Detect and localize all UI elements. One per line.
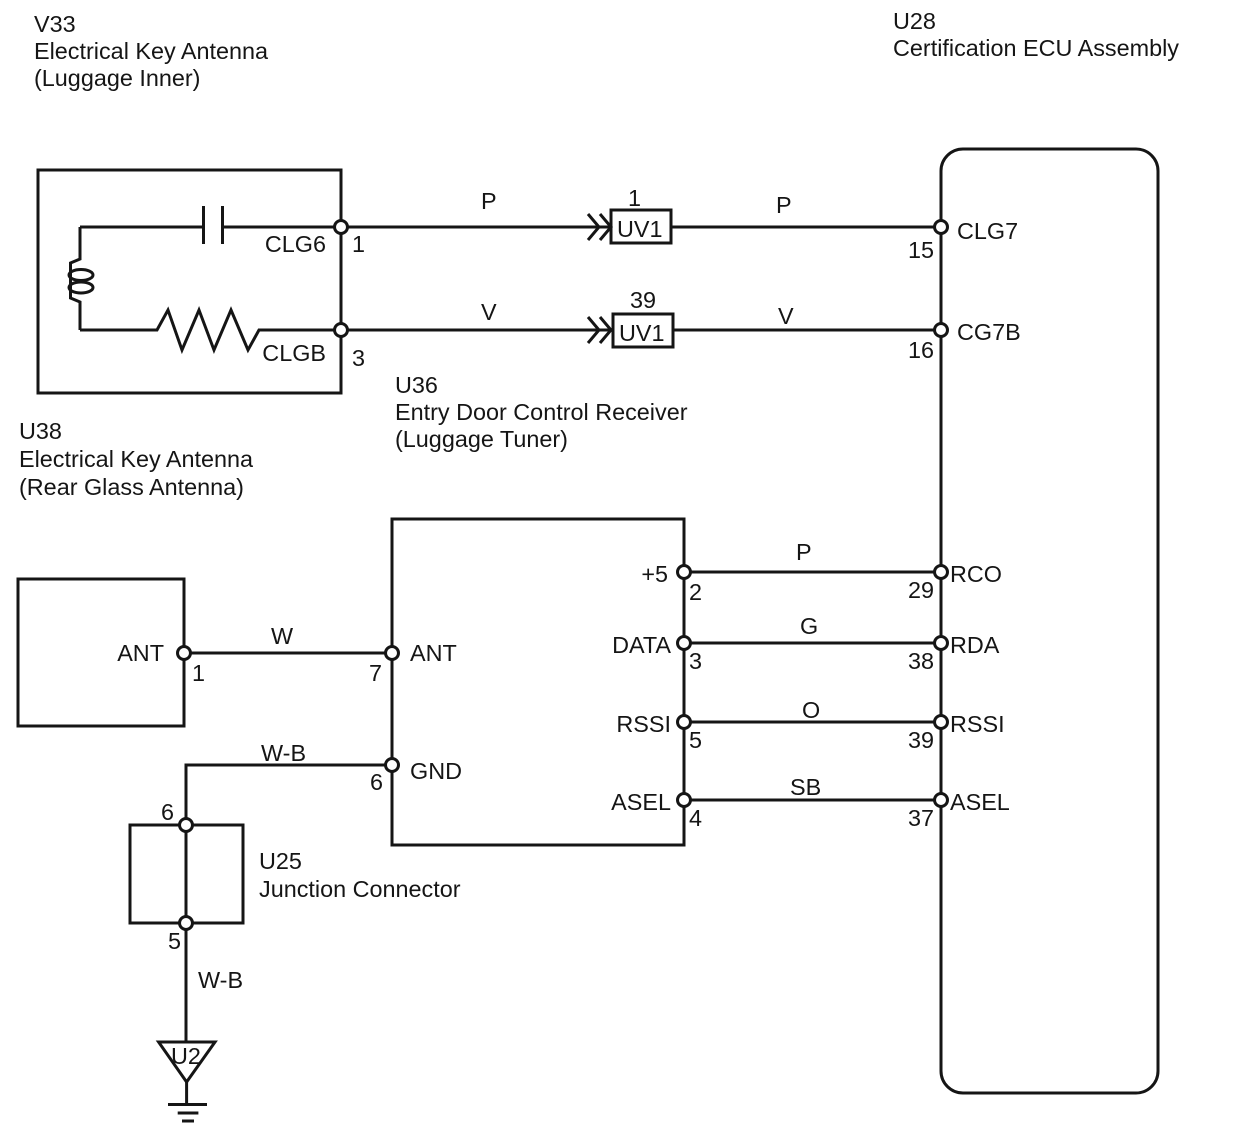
node RSSI pin 5 of U36: [616, 711, 702, 753]
connector UV1 pin 1 box: [611, 210, 671, 243]
svg-text:6: 6: [370, 769, 383, 795]
node +5 pin 2 of U36: [641, 561, 702, 605]
svg-text:2: 2: [689, 579, 702, 605]
svg-text:W-B: W-B: [198, 967, 243, 993]
svg-text:W: W: [271, 623, 293, 649]
svg-text:U28: U28: [893, 8, 936, 34]
svg-text:RDA: RDA: [950, 632, 1000, 658]
svg-text:Electrical Key Antenna: Electrical Key Antenna: [19, 446, 254, 472]
node CLG6 pin 1 of V33: [265, 221, 365, 258]
svg-text:SB: SB: [790, 774, 821, 800]
svg-text:Certification ECU Assembly: Certification ECU Assembly: [893, 35, 1179, 61]
svg-text:3: 3: [689, 648, 702, 674]
svg-text:1: 1: [628, 185, 641, 211]
svg-text:4: 4: [689, 805, 702, 831]
svg-text:ANT: ANT: [117, 640, 164, 666]
node CG7B pin 16 of U28: [908, 319, 1021, 363]
wire through junction connector: [185, 825, 188, 923]
svg-text:CLG6: CLG6: [265, 231, 326, 257]
resistor (V33 internal): [80, 310, 341, 350]
node RSSI pin 39 of U28: [908, 711, 1005, 753]
ground symbol bars: [168, 1105, 207, 1122]
svg-text:UV1: UV1: [619, 320, 665, 346]
label U38 title: [19, 418, 254, 500]
svg-text:ASEL: ASEL: [611, 789, 671, 815]
svg-text:15: 15: [908, 237, 934, 263]
ground triangle U2: [159, 1042, 215, 1082]
svg-text:DATA: DATA: [612, 632, 671, 658]
svg-text:CLG7: CLG7: [957, 218, 1018, 244]
connector UV1 pin 39 box: [613, 314, 673, 347]
svg-text:RSSI: RSSI: [616, 711, 671, 737]
svg-text:RCO: RCO: [950, 561, 1002, 587]
node ANT pin 7 of U36: [369, 640, 457, 686]
node DATA pin 3 of U36: [612, 632, 702, 674]
svg-text:U36: U36: [395, 372, 438, 398]
component U25 junction connector box: [130, 825, 243, 923]
wire SB from U36 ASEL to ECU ASEL: [684, 799, 941, 802]
component V33 box: [38, 170, 341, 393]
label U36 title: [395, 372, 688, 452]
capacitor (V33 internal): [204, 206, 223, 244]
component U38 box: [18, 579, 184, 726]
svg-text:39: 39: [908, 727, 934, 753]
svg-text:39: 39: [630, 287, 656, 313]
node CLG7 pin 15 of U28: [908, 218, 1018, 263]
svg-text:V: V: [481, 299, 497, 325]
svg-text:ANT: ANT: [410, 640, 457, 666]
svg-text:5: 5: [689, 727, 702, 753]
svg-text:CLGB: CLGB: [262, 340, 326, 366]
node GND pin 6 of U36: [370, 758, 462, 795]
wire P from U36 +5 to ECU RCO: [684, 571, 941, 574]
svg-text:Junction Connector: Junction Connector: [259, 876, 461, 902]
component U28 ECU rounded box: [941, 149, 1158, 1093]
svg-text:37: 37: [908, 805, 934, 831]
svg-text:U38: U38: [19, 418, 62, 444]
wire apex to ground bars: [185, 1082, 188, 1104]
svg-text:Electrical Key Antenna: Electrical Key Antenna: [34, 38, 269, 64]
svg-text:GND: GND: [410, 758, 462, 784]
svg-text:38: 38: [908, 648, 934, 674]
svg-text:UV1: UV1: [617, 216, 663, 242]
svg-text:5: 5: [168, 928, 181, 954]
svg-text:CG7B: CG7B: [957, 319, 1021, 345]
connector pass-through chevrons UV1 pin 1: [588, 214, 611, 240]
svg-text:O: O: [802, 697, 820, 723]
node ASEL pin 4 of U36: [611, 789, 702, 831]
svg-text:W-B: W-B: [261, 740, 306, 766]
svg-text:P: P: [776, 192, 792, 218]
svg-text:V33: V33: [34, 11, 76, 37]
node ASEL pin 37 of U28: [908, 789, 1010, 831]
svg-text:V: V: [778, 303, 794, 329]
svg-text:1: 1: [192, 660, 205, 686]
node RCO pin 29 of U28: [908, 561, 1002, 603]
svg-text:1: 1: [352, 231, 365, 257]
node pin 6 of U25: [161, 799, 193, 832]
svg-text:(Rear Glass Antenna): (Rear Glass Antenna): [19, 474, 244, 500]
svg-text:16: 16: [908, 337, 934, 363]
wire W-B from junction pin 5 to ground: [185, 923, 188, 1042]
svg-text:29: 29: [908, 577, 934, 603]
svg-text:U25: U25: [259, 848, 302, 874]
node ANT pin 1 of U38: [117, 640, 205, 686]
svg-text:+5: +5: [641, 561, 668, 587]
label U28 title: [893, 8, 1179, 61]
svg-text:ASEL: ASEL: [950, 789, 1010, 815]
wire G from U36 DATA to ECU RDA: [684, 642, 941, 645]
svg-text:U2: U2: [171, 1043, 201, 1069]
svg-text:RSSI: RSSI: [950, 711, 1005, 737]
wire V from CLGB to connector UV1: [341, 329, 613, 332]
svg-text:(Luggage Tuner): (Luggage Tuner): [395, 426, 568, 452]
node RDA pin 38 of U28: [908, 632, 1000, 674]
wire W from U38 ANT to U36 ANT: [184, 652, 392, 655]
svg-text:(Luggage Inner): (Luggage Inner): [34, 65, 200, 91]
component U36 box: [392, 519, 684, 845]
node CLGB pin 3 of V33: [262, 324, 365, 372]
svg-text:P: P: [481, 188, 497, 214]
wire V from UV1 to CG7B: [673, 329, 941, 332]
svg-text:Entry Door Control Receiver: Entry Door Control Receiver: [395, 399, 688, 425]
connector pass-through chevrons UV1 pin 39: [588, 317, 611, 343]
svg-text:3: 3: [352, 345, 365, 371]
svg-text:P: P: [796, 539, 812, 565]
svg-text:6: 6: [161, 799, 174, 825]
label U25 title: [259, 848, 461, 902]
inductor (V33 internal): [69, 227, 93, 330]
wire P from UV1 to CLG7: [671, 226, 941, 229]
wire W-B from U36 GND to junction pin 6: [186, 765, 392, 825]
svg-text:G: G: [800, 613, 818, 639]
wire V33 top inner: [80, 226, 341, 229]
label V33 title: [34, 11, 269, 91]
wire O from U36 RSSI to ECU RSSI: [684, 721, 941, 724]
wire P from CLG6 to connector UV1: [341, 226, 611, 229]
svg-text:7: 7: [369, 660, 382, 686]
node pin 5 of U25: [168, 917, 193, 955]
